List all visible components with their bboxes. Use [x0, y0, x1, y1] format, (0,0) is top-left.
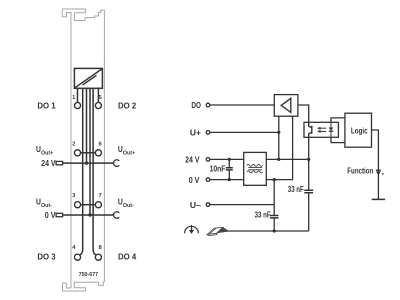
- filter coil upper: [247, 164, 263, 166]
- pin 5 circle: [95, 102, 101, 108]
- svg-text:4: 4: [72, 245, 76, 251]
- capacitor C2 wire bottom: [308, 193, 310, 231]
- wire amp output to opto: [298, 105, 309, 122]
- wire logic to function earth: [372, 130, 379, 199]
- svg-text:DO 3: DO 3: [37, 252, 55, 262]
- capacitor C3 33nF bottom plates: [270, 216, 279, 218]
- svg-text:Logic: Logic: [351, 126, 368, 136]
- wire stub pin1: [77, 88, 79, 102]
- capacitor C1 plates: [226, 168, 233, 170]
- amp triangle: [281, 98, 291, 112]
- svg-text:Out-: Out-: [123, 203, 134, 209]
- wire 24V to filter: [210, 158, 244, 160]
- svg-text:Out-: Out-: [41, 203, 52, 209]
- 24V terminal square: [56, 161, 63, 164]
- module left edge: [70, 55, 72, 288]
- schematic terminal 0V: [206, 178, 210, 182]
- clamp 0V: [114, 212, 120, 219]
- wire 0V filter to amp: [266, 116, 292, 179]
- junction dot 24V: [277, 158, 280, 161]
- svg-text:24 V: 24 V: [185, 155, 200, 165]
- pin 1 circle: [74, 102, 80, 108]
- filter core line 1: [248, 166, 262, 168]
- pin 2 circle: [74, 150, 80, 156]
- capacitor C1 10nF wire top: [228, 159, 230, 167]
- converter stripe: [83, 75, 97, 85]
- module right edge: [103, 55, 105, 282]
- svg-text:U+: U+: [190, 128, 201, 138]
- svg-text:8: 8: [99, 245, 102, 251]
- wire to pin8: [93, 88, 96, 255]
- svg-text:24 V: 24 V: [41, 158, 56, 168]
- svg-text:7: 7: [99, 193, 102, 199]
- svg-text:5: 5: [99, 95, 102, 101]
- capacitor C1 wire bottom: [228, 170, 230, 179]
- opto phototransistor: [309, 122, 312, 137]
- opto LED: [329, 122, 334, 137]
- wire opto emitter down: [308, 137, 310, 190]
- svg-text:DO 2: DO 2: [118, 100, 136, 110]
- wire LED cathode to logic: [331, 137, 345, 142]
- opto box U3: [304, 122, 338, 137]
- 0V terminal square: [56, 213, 63, 216]
- pin 4 circle: [74, 254, 80, 260]
- svg-text:750-677: 750-677: [79, 272, 99, 278]
- opto light arrow lower: [317, 130, 326, 133]
- pin 7 circle: [95, 202, 101, 208]
- module outline bottom profile: [63, 282, 105, 291]
- logic box U4: [345, 113, 372, 147]
- svg-text:6: 6: [99, 142, 102, 148]
- wire 24V branch: [86, 88, 88, 163]
- wire 0V to filter: [210, 179, 244, 181]
- capacitor C2 33nF right plates: [304, 190, 313, 192]
- svg-text:Out+: Out+: [41, 151, 53, 157]
- svg-text:DO 4: DO 4: [118, 252, 136, 262]
- filter coil lower: [247, 171, 263, 173]
- wire amp supply U+: [278, 116, 280, 159]
- 24V rail wire: [63, 162, 114, 164]
- wire DO to amp: [210, 104, 274, 106]
- module outline top profile: [62, 9, 104, 60]
- pin 3 circle: [74, 202, 80, 208]
- schematic terminal DO: [206, 103, 210, 107]
- filter box L1: [244, 152, 267, 185]
- svg-text:0 V: 0 V: [189, 175, 200, 185]
- junction dot U+: [277, 131, 280, 134]
- junction dot opto 24V: [307, 158, 310, 161]
- wire 0V down: [273, 180, 275, 215]
- svg-text:e: e: [382, 171, 385, 176]
- row3 connector wire: [81, 204, 96, 206]
- svg-text:DO: DO: [191, 100, 201, 110]
- opto light arrow upper: [317, 127, 326, 130]
- svg-text:2: 2: [72, 142, 75, 148]
- earth symbol: [185, 225, 199, 234]
- svg-text:3: 3: [72, 193, 75, 199]
- wire U-: [210, 204, 274, 206]
- junction dot C1 bottom: [228, 178, 231, 181]
- clamp 24V: [114, 160, 120, 167]
- capacitor C3 wire bottom: [273, 218, 275, 231]
- schematic terminal U-: [206, 203, 210, 207]
- junction dot C1 top: [228, 158, 231, 161]
- wire LED anode to logic: [331, 118, 345, 122]
- filter core line 2: [248, 169, 262, 171]
- earth end bar: [372, 198, 385, 200]
- junction dot 24V rail: [85, 161, 88, 164]
- amp box U2: [274, 95, 298, 117]
- row2 connector wire: [81, 152, 96, 154]
- wire 0V branch: [89, 88, 91, 215]
- junction dot 0V rail: [88, 213, 91, 216]
- wire 24V filter to opto-emitter node: [266, 158, 308, 160]
- pin 6 circle: [95, 150, 101, 156]
- schematic terminal U+: [206, 131, 210, 135]
- schematic terminal 24V: [206, 158, 210, 162]
- svg-text:0 V: 0 V: [45, 210, 56, 220]
- svg-text:33 nF: 33 nF: [255, 211, 271, 220]
- converter box U1: [74, 68, 102, 88]
- svg-text:Function: Function: [347, 165, 373, 175]
- svg-text:10nF: 10nF: [210, 165, 226, 174]
- bottom earth rail: [227, 230, 309, 232]
- operating tool icon: [207, 227, 227, 235]
- svg-text:33 nF: 33 nF: [288, 185, 304, 194]
- svg-text:1: 1: [72, 95, 75, 101]
- svg-text:DO 1: DO 1: [37, 100, 55, 110]
- converter diagonal: [75, 69, 102, 88]
- junction dot rail: [273, 229, 276, 232]
- wire to pin4: [80, 88, 83, 255]
- junction dot 0V: [273, 178, 276, 181]
- pin 8 circle: [95, 254, 101, 260]
- function earth symbol: [376, 170, 385, 176]
- 0V rail wire: [63, 214, 114, 216]
- svg-text:U–: U–: [190, 200, 201, 210]
- wire stub pin5: [97, 88, 99, 102]
- wire U+: [210, 131, 279, 133]
- svg-text:Out+: Out+: [123, 151, 135, 157]
